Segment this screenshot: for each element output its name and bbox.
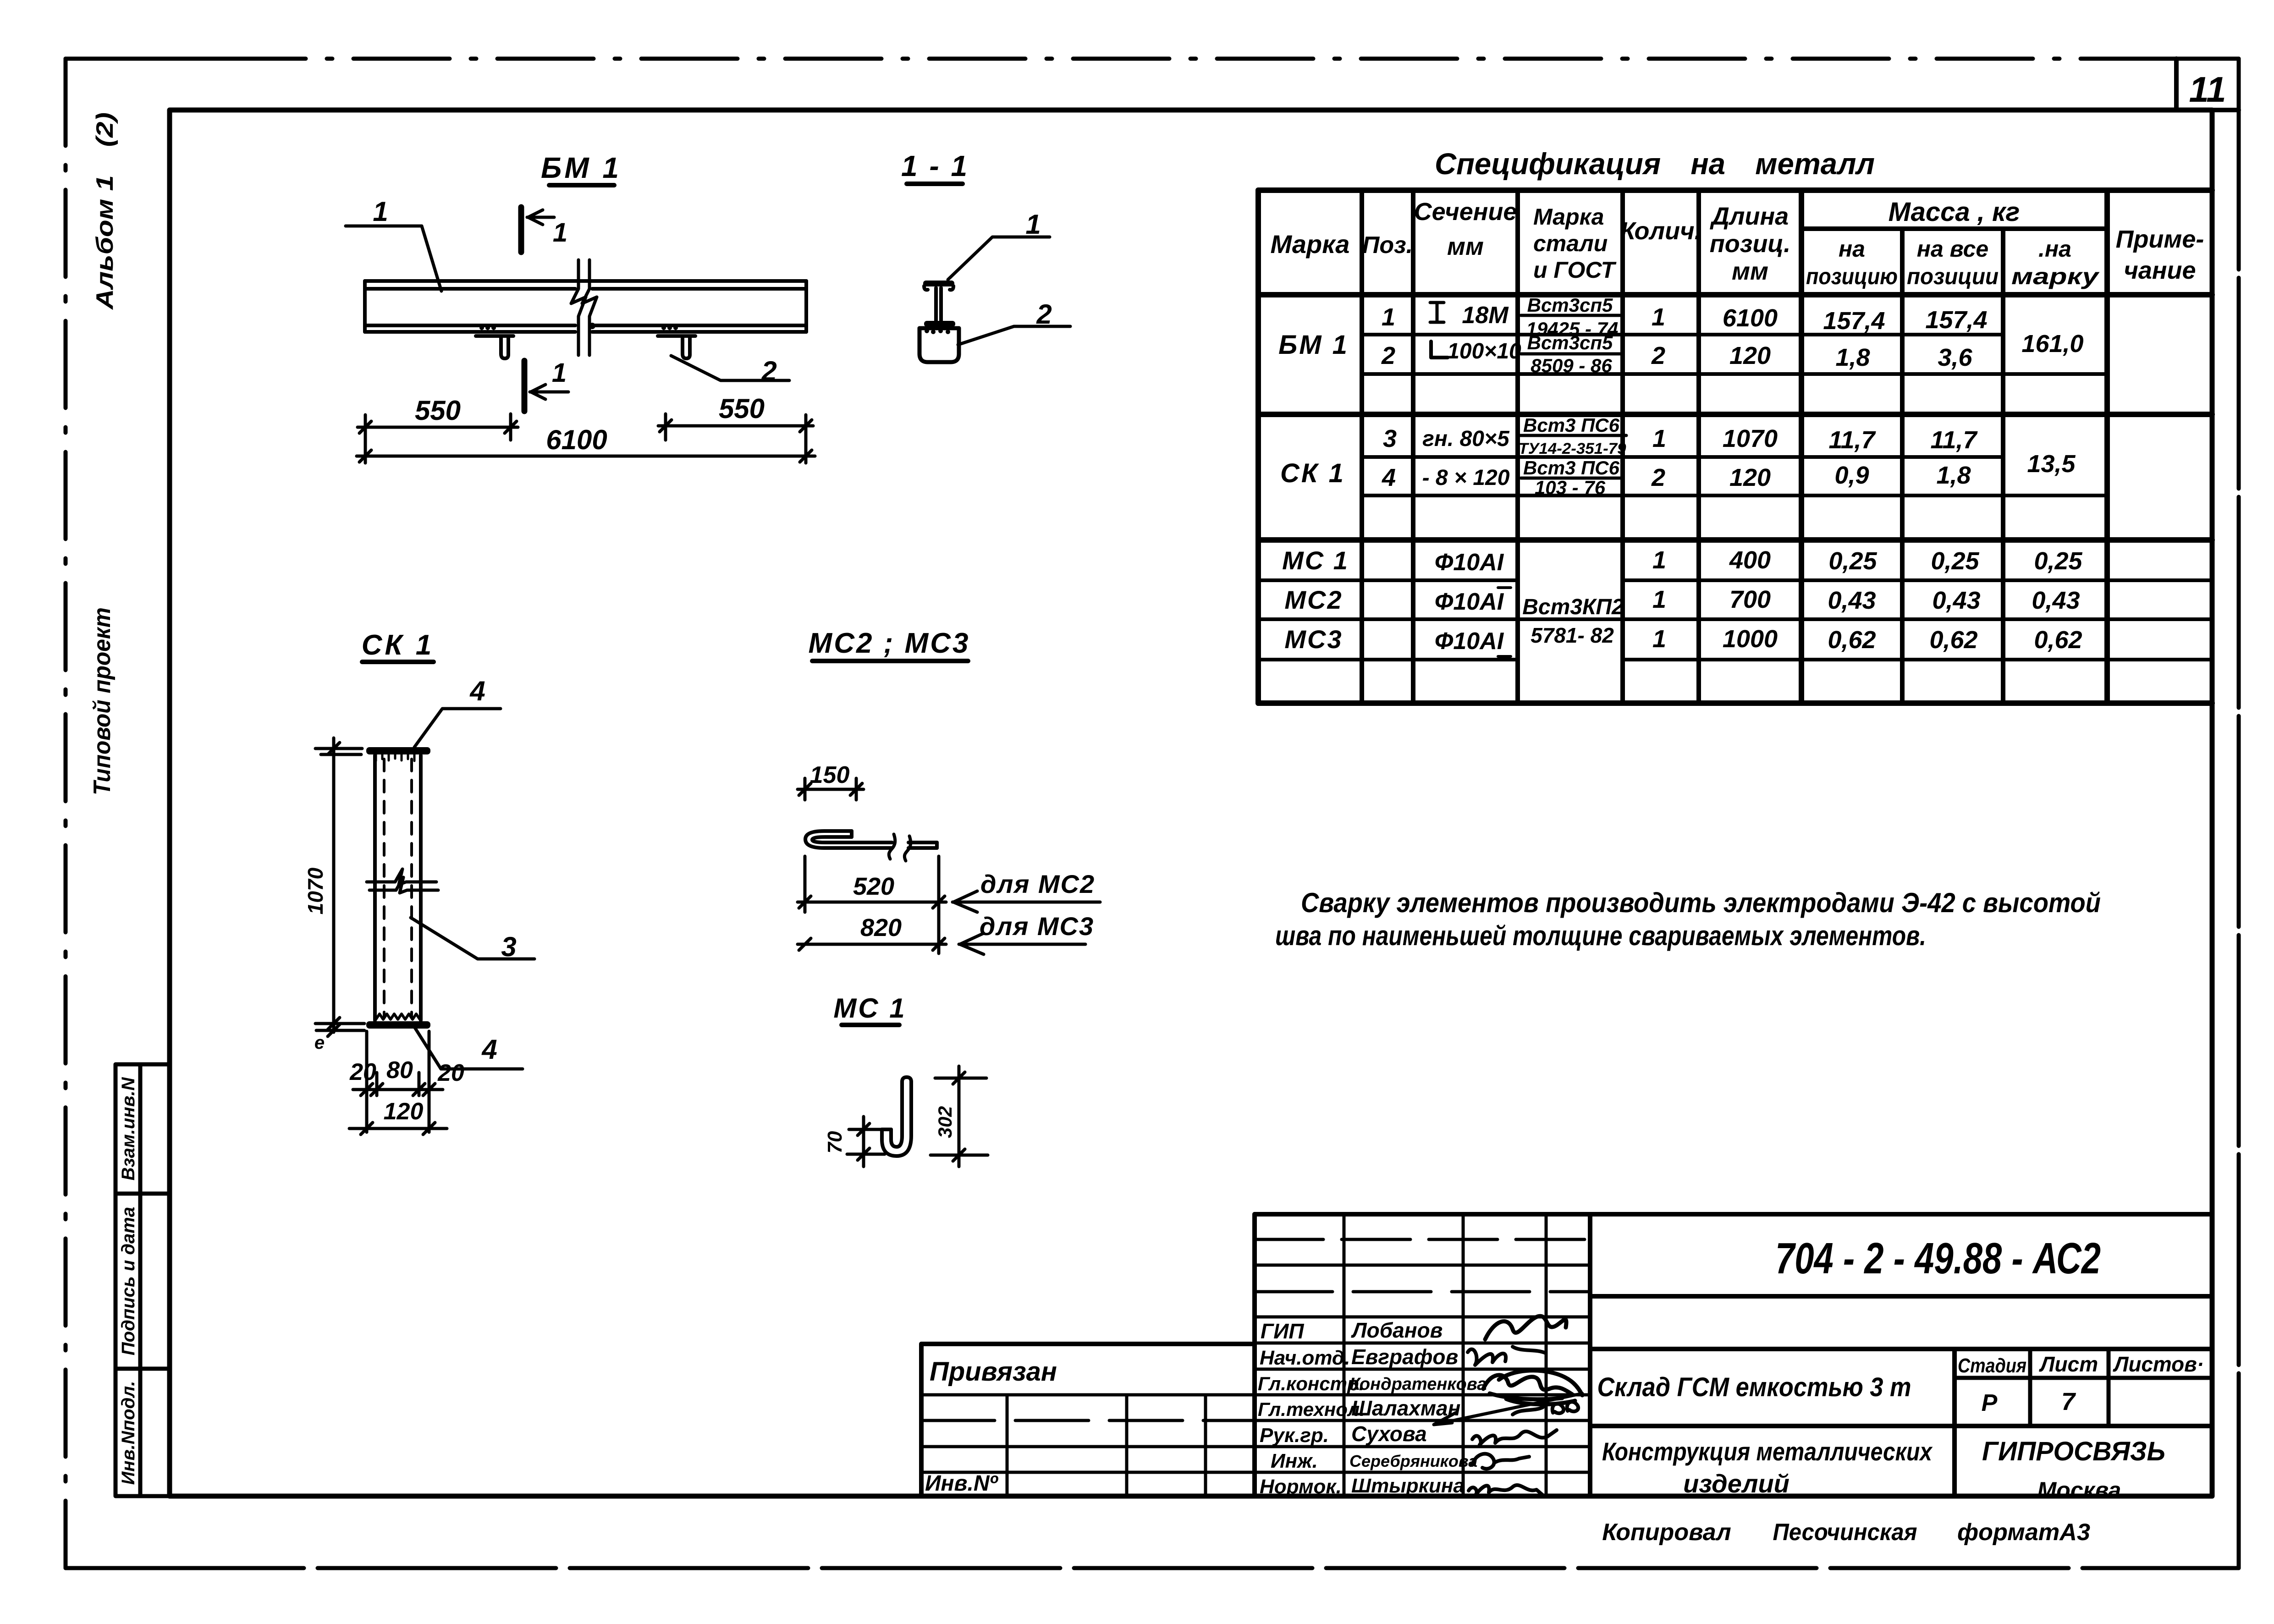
svg-text:0,25: 0,25 bbox=[2034, 547, 2082, 575]
svg-text:4: 4 bbox=[469, 676, 485, 706]
svg-text:4: 4 bbox=[481, 1034, 497, 1065]
svg-text:400: 400 bbox=[1729, 546, 1771, 574]
svg-text:1: 1 bbox=[1025, 209, 1041, 240]
svg-text:форматА3: форматА3 bbox=[1957, 1519, 2090, 1546]
dim 1070 vertical bbox=[315, 738, 364, 1032]
svg-text:2: 2 bbox=[1651, 464, 1665, 491]
svg-text:на: на bbox=[1839, 236, 1865, 262]
svg-text:Листов·: Листов· bbox=[2113, 1352, 2204, 1376]
svg-text:4: 4 bbox=[1382, 464, 1396, 491]
svg-text:МС2 ; МС3: МС2 ; МС3 bbox=[809, 628, 970, 659]
svg-text:Сварку элементов производить э: Сварку элементов производить электродами… bbox=[1301, 887, 2101, 918]
svg-text:МС 1: МС 1 bbox=[1282, 546, 1349, 575]
dim 6100 bbox=[357, 450, 815, 462]
svg-text:1: 1 bbox=[1652, 303, 1665, 331]
svg-text:1070: 1070 bbox=[1723, 425, 1778, 452]
leader to pos.1 bbox=[346, 226, 441, 291]
bar break symbol bbox=[889, 834, 910, 861]
svg-text:Типовой проект: Типовой проект bbox=[89, 607, 116, 795]
weld dots left cleat bbox=[479, 325, 496, 330]
svg-text:Марка: Марка bbox=[1271, 230, 1350, 259]
svg-text:Вст3сп5: Вст3сп5 bbox=[1527, 332, 1613, 353]
svg-text:ГИП: ГИП bbox=[1261, 1319, 1304, 1343]
column СК1 top flange pos.4 bbox=[366, 747, 430, 754]
svg-text:Привязан: Привязан bbox=[930, 1357, 1057, 1387]
svg-text:на все: на все bbox=[1917, 236, 1988, 262]
svg-text:1,8: 1,8 bbox=[1835, 344, 1870, 371]
svg-text:0,43: 0,43 bbox=[1828, 587, 1876, 614]
svg-text:700: 700 bbox=[1729, 586, 1771, 613]
svg-text:марку: марку bbox=[2011, 264, 2100, 289]
svg-text:Марка: Марка bbox=[1533, 204, 1604, 230]
svg-text:Нормок.: Нормок. bbox=[1260, 1475, 1342, 1498]
svg-text:и ГОСТ: и ГОСТ bbox=[1533, 257, 1617, 283]
svg-text:0,9: 0,9 bbox=[1834, 462, 1869, 489]
svg-text:550: 550 bbox=[415, 395, 461, 426]
angle cleat pos.2 left bbox=[476, 336, 513, 358]
svg-text:Евграфов: Евграфов bbox=[1351, 1345, 1458, 1369]
angle cleat pos.2 right bbox=[658, 336, 695, 358]
svg-text:0,43: 0,43 bbox=[1932, 587, 1980, 614]
title underline bbox=[907, 182, 963, 186]
svg-text:Спецификация на металл: Спецификация на металл bbox=[1435, 147, 1875, 181]
table grid bbox=[1258, 190, 2212, 703]
svg-text:11,7: 11,7 bbox=[1930, 426, 1978, 454]
svg-text:Приме-: Приме- bbox=[2116, 226, 2204, 253]
svg-text:80: 80 bbox=[386, 1057, 413, 1084]
svg-text:Инв.Nº: Инв.Nº bbox=[925, 1471, 999, 1496]
svg-text:Масса , кг: Масса , кг bbox=[1889, 197, 2020, 227]
svg-text:2: 2 bbox=[1651, 342, 1665, 369]
svg-text:0,62: 0,62 bbox=[1929, 626, 1977, 654]
svg-text:704 - 2 - 49.88 - АС2: 704 - 2 - 49.88 - АС2 bbox=[1775, 1234, 2101, 1283]
svg-text:1: 1 bbox=[552, 358, 567, 388]
title underline bbox=[812, 659, 968, 663]
svg-text:Альбом 1 (2): Альбом 1 (2) bbox=[92, 112, 118, 310]
svg-text:150: 150 bbox=[810, 762, 850, 788]
svg-text:Взам.инв.N: Взам.инв.N bbox=[118, 1077, 138, 1180]
GOST fraction bars bbox=[1520, 315, 1626, 478]
svg-text:Поз.: Поз. bbox=[1362, 232, 1413, 259]
svg-text:Вст3КП2: Вст3КП2 bbox=[1522, 595, 1624, 619]
beam break symbol bbox=[571, 260, 597, 355]
svg-text:позицию: позицию bbox=[1806, 264, 1898, 289]
column bottom flange pos.4 bbox=[366, 1021, 430, 1029]
svg-text:Нач.отд.: Нач.отд. bbox=[1260, 1347, 1350, 1369]
I-beam cross-section pos.1 bbox=[923, 281, 954, 286]
section I 18M bbox=[1430, 303, 1444, 322]
svg-text:3: 3 bbox=[501, 931, 516, 962]
svg-text:Москва: Москва bbox=[2037, 1477, 2121, 1503]
svg-text:Стадия: Стадия bbox=[1958, 1354, 2026, 1377]
svg-text:2: 2 bbox=[1036, 299, 1052, 330]
arrow line across bbox=[1434, 1393, 1582, 1425]
svg-text:7: 7 bbox=[2061, 1388, 2076, 1415]
svg-text:1: 1 bbox=[373, 196, 388, 227]
signature Нормок. bbox=[1469, 1485, 1543, 1495]
svg-text:20: 20 bbox=[437, 1060, 464, 1086]
leader to pos.4 bottom bbox=[415, 1028, 523, 1069]
svg-text:2: 2 bbox=[1381, 342, 1395, 369]
weld zigzag above bottom flange bbox=[376, 1014, 420, 1019]
svg-text:Длина: Длина bbox=[1710, 203, 1789, 230]
svg-text:для МС2: для МС2 bbox=[980, 870, 1095, 898]
svg-text:302: 302 bbox=[934, 1106, 956, 1138]
angle block pos.2 (cross-section) bbox=[920, 328, 959, 362]
svg-text:0,25: 0,25 bbox=[1828, 547, 1877, 575]
svg-text:520: 520 bbox=[853, 873, 894, 900]
svg-text:Р: Р bbox=[1982, 1390, 1998, 1416]
svg-text:Песочинская: Песочинская bbox=[1773, 1519, 1917, 1546]
dim 550 right bbox=[658, 414, 813, 463]
svg-text:Вст3сп5: Вст3сп5 bbox=[1527, 294, 1613, 316]
weld dots on block bbox=[925, 329, 950, 334]
svg-text:100×10: 100×10 bbox=[1447, 339, 1521, 363]
svg-text:Лобанов: Лобанов bbox=[1351, 1318, 1443, 1342]
svg-text:позиц.: позиц. bbox=[1710, 230, 1790, 258]
svg-text:0,25: 0,25 bbox=[1931, 547, 1979, 575]
svg-text:13,5: 13,5 bbox=[2027, 450, 2076, 478]
svg-text:Ф10АI: Ф10АI bbox=[1435, 628, 1504, 655]
right stamp section lines bbox=[1590, 1296, 2212, 1496]
svg-text:- 8 × 120: - 8 × 120 bbox=[1422, 466, 1510, 490]
svg-text:Кондратенкова: Кондратенкова bbox=[1349, 1375, 1487, 1394]
dim 550 left bbox=[358, 414, 518, 463]
svg-text:1,8: 1,8 bbox=[1936, 462, 1971, 489]
stamp outer lines bbox=[921, 1214, 2212, 1496]
svg-text:1070: 1070 bbox=[303, 867, 327, 914]
svg-text:157,4: 157,4 bbox=[1925, 306, 1987, 334]
svg-text:для МС3: для МС3 bbox=[980, 912, 1094, 941]
section mark 1 bottom bbox=[524, 361, 568, 411]
svg-text:БМ 1: БМ 1 bbox=[1278, 330, 1349, 360]
svg-text:Серебряникова: Серебряникова bbox=[1349, 1452, 1477, 1470]
svg-text:11,7: 11,7 bbox=[1828, 426, 1876, 454]
date scribble 88 bbox=[1513, 1402, 1578, 1415]
svg-text:70: 70 bbox=[824, 1131, 846, 1153]
weld drips below top flange bbox=[376, 754, 421, 761]
svg-text:0,62: 0,62 bbox=[2034, 626, 2082, 654]
title underline bbox=[362, 660, 434, 664]
svg-text:мм: мм bbox=[1447, 233, 1484, 260]
leader to pos.4 top bbox=[414, 709, 501, 747]
svg-text:шва по наименьшей толщине свар: шва по наименьшей толщине свариваемых эл… bbox=[1275, 920, 1926, 951]
signature block grid bbox=[1255, 1214, 1590, 1496]
leader to pos.3 bbox=[411, 918, 534, 959]
svg-text:ТУ14-2-351-79: ТУ14-2-351-79 bbox=[1519, 440, 1626, 457]
svg-text:Инв.Nподл.: Инв.Nподл. bbox=[118, 1381, 138, 1485]
svg-text:Сечение: Сечение bbox=[1414, 198, 1517, 226]
svg-text:Гл.констр.: Гл.констр. bbox=[1258, 1373, 1364, 1394]
svg-text:3,6: 3,6 bbox=[1938, 344, 1972, 371]
svg-text:СК 1: СК 1 bbox=[362, 629, 435, 661]
svg-text:820: 820 bbox=[860, 914, 902, 941]
signature ГИП bbox=[1485, 1316, 1566, 1339]
svg-text:2: 2 bbox=[761, 356, 776, 386]
svg-text:Гл.технол.: Гл.технол. bbox=[1258, 1398, 1365, 1420]
svg-text:103 - 76: 103 - 76 bbox=[1535, 477, 1606, 498]
privyazan block grid bbox=[921, 1395, 1255, 1496]
svg-text:гн. 80×5: гн. 80×5 bbox=[1422, 427, 1510, 451]
svg-text:Сухова: Сухова bbox=[1351, 1422, 1427, 1446]
leader to pos.1 bbox=[948, 237, 1050, 280]
svg-text:0,62: 0,62 bbox=[1828, 626, 1876, 654]
svg-text:БМ 1: БМ 1 bbox=[541, 151, 622, 184]
svg-text:Склад ГСМ емкостью 3 т: Склад ГСМ емкостью 3 т bbox=[1597, 1372, 1911, 1402]
svg-text:120: 120 bbox=[1729, 342, 1771, 369]
column break symbol bbox=[367, 869, 438, 893]
svg-text:Шалахман: Шалахман bbox=[1351, 1396, 1460, 1420]
title underline bbox=[842, 1023, 899, 1027]
signature Гл.констр. bbox=[1483, 1371, 1582, 1404]
weld dots right cleat bbox=[661, 325, 678, 330]
svg-text:1000: 1000 bbox=[1723, 625, 1778, 653]
svg-text:мм: мм bbox=[1732, 258, 1768, 285]
svg-text:1: 1 bbox=[1382, 303, 1395, 331]
svg-text:20: 20 bbox=[349, 1059, 376, 1085]
svg-text:Ф10АI: Ф10АI bbox=[1435, 549, 1504, 576]
svg-text:МС3: МС3 bbox=[1284, 625, 1343, 654]
svg-text:1: 1 bbox=[1652, 425, 1666, 452]
svg-text:Подпись и дата: Подпись и дата bbox=[118, 1207, 138, 1355]
flange thickness ext bbox=[316, 1024, 364, 1036]
svg-text:0,43: 0,43 bbox=[2032, 587, 2080, 614]
svg-text:Вст3 ПС6: Вст3 ПС6 bbox=[1523, 457, 1620, 479]
svg-text:Вст3 ПС6: Вст3 ПС6 bbox=[1523, 414, 1620, 436]
beam БМ1 body (I-beam side view) bbox=[365, 281, 806, 332]
svg-text:18М: 18М bbox=[1462, 302, 1509, 329]
column body pos.3 (bent channel) bbox=[375, 755, 421, 1020]
svg-text:Копировал: Копировал bbox=[1602, 1519, 1731, 1546]
svg-text:Колич.: Колич. bbox=[1620, 217, 1701, 245]
svg-text:1: 1 bbox=[1652, 586, 1666, 613]
svg-text:Инж.: Инж. bbox=[1271, 1450, 1318, 1472]
page number box 11 bbox=[527, 59, 2239, 110]
svg-text:120: 120 bbox=[384, 1098, 424, 1125]
signature Инж. bbox=[1472, 1454, 1529, 1469]
svg-text:1 - 1: 1 - 1 bbox=[901, 149, 969, 182]
svg-text:5781- 82: 5781- 82 bbox=[1531, 623, 1614, 647]
svg-text:1: 1 bbox=[553, 218, 567, 248]
svg-text:1: 1 bbox=[1652, 625, 1666, 653]
inner frame bbox=[170, 110, 2212, 1496]
svg-text:Рук.гр.: Рук.гр. bbox=[1260, 1424, 1329, 1447]
svg-text:8509 - 86: 8509 - 86 bbox=[1531, 355, 1612, 376]
svg-text:3: 3 bbox=[1383, 425, 1397, 452]
svg-text:6100: 6100 bbox=[546, 424, 607, 455]
svg-text:Ф10АI: Ф10АI bbox=[1435, 589, 1504, 615]
svg-text:550: 550 bbox=[719, 393, 765, 424]
section mark 1 top bbox=[521, 207, 554, 252]
signature Рук.гр. bbox=[1472, 1430, 1557, 1445]
leader to pos.2 bbox=[671, 356, 789, 380]
svg-text:1: 1 bbox=[1652, 546, 1666, 574]
J-hook bar МС1 bbox=[882, 1077, 911, 1156]
svg-text:СК 1: СК 1 bbox=[1280, 458, 1345, 488]
leader to pos.2 bbox=[958, 326, 1070, 345]
svg-text:161,0: 161,0 bbox=[2021, 330, 2083, 358]
svg-text:Конструкция металлических: Конструкция металлических bbox=[1602, 1437, 1933, 1466]
svg-text:120: 120 bbox=[1729, 464, 1771, 491]
svg-text:МС2: МС2 bbox=[1284, 585, 1343, 614]
svg-text:ГИПРОСВЯЗЬ: ГИПРОСВЯЗЬ bbox=[1982, 1437, 2165, 1466]
svg-text:157,4: 157,4 bbox=[1823, 307, 1885, 335]
svg-text:МС 1: МС 1 bbox=[833, 993, 906, 1024]
hook bar МС2/МС3 bbox=[805, 831, 937, 848]
left stamp strip bbox=[116, 1064, 170, 1496]
weld seam dashes bbox=[384, 759, 412, 1017]
svg-text:6100: 6100 bbox=[1723, 304, 1778, 332]
svg-text:стали: стали bbox=[1533, 231, 1608, 256]
signature Нач.отд. bbox=[1468, 1347, 1546, 1365]
svg-text:позиции: позиции bbox=[1907, 264, 1999, 289]
svg-text:изделий: изделий bbox=[1683, 1469, 1789, 1498]
svg-text:11: 11 bbox=[2189, 69, 2226, 110]
section L100x10 bbox=[1431, 341, 1448, 358]
title underline bbox=[549, 183, 614, 187]
svg-text:Лист: Лист bbox=[2039, 1352, 2098, 1376]
svg-text:Штыркина: Штыркина bbox=[1351, 1475, 1465, 1497]
svg-text:чание: чание bbox=[2124, 257, 2196, 284]
svg-text:е: е bbox=[314, 1033, 325, 1053]
svg-text:.на: .на bbox=[2038, 236, 2071, 262]
